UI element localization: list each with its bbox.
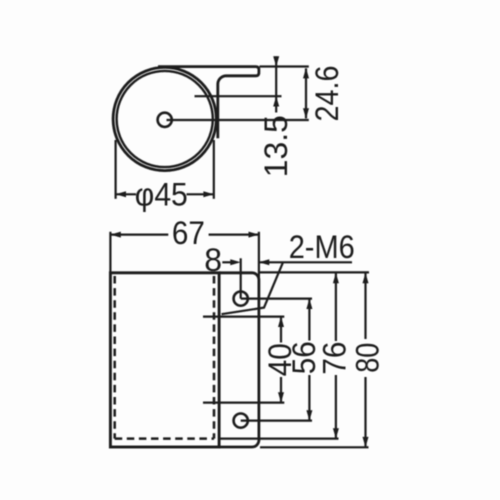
arrowhead 40 bottom (points down) (278, 392, 284, 402)
dimension line 13.5 (vertical) (275, 56, 277, 112)
arrowhead 24.6 bottom (points down) (303, 108, 309, 118)
arrowhead 67 right (points right) (249, 232, 259, 238)
hole M6 top (234, 292, 248, 306)
extension line from flange top to right (260, 65, 309, 67)
hidden line left (dashed) (113, 276, 116, 439)
hidden line right (dashed) (213, 276, 216, 439)
arrowhead 8 left (points right at hole center line) (230, 259, 240, 265)
extension line 76 bottom (continuation of hidden line) (219, 438, 338, 440)
arrowhead 76 top (points up) (333, 273, 339, 283)
arrowhead 13.5 top (points down) (273, 56, 279, 66)
hole center vertical line (8 dim reference) (240, 258, 242, 298)
arrowhead 56 bottom (points down) (306, 410, 312, 420)
top hole center line to right (56 upper reference) (241, 298, 312, 300)
dimension line 67 right segment (209, 234, 259, 236)
svg-text:8: 8 (204, 242, 222, 278)
svg-text:2-M6: 2-M6 (289, 229, 355, 265)
dimension line 80 lower segment (364, 377, 366, 447)
dimension line 76 upper segment (335, 273, 337, 341)
extension line 67 left (above body corner) (109, 232, 111, 273)
arrowhead 24.6 top (points up) (303, 68, 309, 78)
arrowhead 40 top (points up) (278, 317, 284, 327)
flange plate (bottom view, rounded right corners) (219, 273, 259, 447)
hidden line bottom (dashed) (115, 437, 214, 440)
arrowhead 67 left (points left) (110, 232, 120, 238)
arrowhead 80 top (points up) (363, 273, 369, 283)
svg-text:24.6: 24.6 (309, 66, 345, 122)
svg-text:67: 67 (172, 215, 205, 251)
outer circle (pipe socket ring, top view) (113, 67, 216, 170)
dimension line 40 upper segment (280, 317, 282, 343)
reference line at plate underside level (13.5 lower reference) (195, 95, 282, 97)
extension line phi45 left (114, 140, 116, 199)
body rectangle (bottom view) (110, 273, 219, 447)
dimension line 56 upper segment (308, 299, 310, 341)
arrowhead phi45 left (points left) (116, 191, 126, 197)
leader line 2-M6 (steep + shallow segments) (222, 262, 284, 314)
extension line 80 bottom (body bottom extended right) (260, 446, 369, 448)
svg-text:13.5: 13.5 (258, 115, 294, 177)
dimension line 24.6 (vertical) (305, 68, 307, 118)
dimension line 76 lower segment (335, 375, 337, 439)
dimension line phi45 right segment (187, 193, 214, 195)
flange tab outline (top view) (158, 67, 259, 139)
dimension line 80 upper segment (364, 273, 366, 339)
dimension line 40 lower segment (280, 377, 282, 403)
svg-text:80: 80 (350, 343, 386, 373)
svg-text:76: 76 (317, 342, 353, 375)
dimension line 67 left segment (110, 234, 168, 236)
extension line 67/8 right (flange right edge extended) (258, 232, 260, 280)
dimension line phi45 left segment (116, 193, 136, 195)
hole M6 bottom (234, 414, 248, 428)
extension line 40 upper (203, 316, 284, 318)
arrowhead 56 top (points up) (306, 299, 312, 309)
inner circle (pipe bore φ45, top view) (117, 71, 213, 167)
arrowhead 13.5 bottom (points up) (273, 96, 279, 106)
arrowhead 76 bottom (points down) (333, 428, 339, 438)
extension line phi45 right (213, 140, 215, 199)
center line from hole to right (24.6 lower reference) (167, 119, 309, 121)
extension line 40 lower (203, 402, 284, 404)
svg-text:φ45: φ45 (135, 176, 188, 212)
arrowhead 80 bottom (points down) (363, 437, 369, 447)
bottom hole center line to right (56 lower reference) (241, 420, 312, 422)
dimension line 8 right tail / 2-M6 underline (259, 261, 352, 263)
extension line 76/80 top (flange top extended right) (259, 271, 369, 273)
center hole (top view) (158, 113, 172, 127)
arrowhead phi45 right (points right) (203, 191, 213, 197)
arrowhead 8 right (points left at flange edge) (259, 259, 269, 265)
dimension line 56 lower segment (308, 375, 310, 421)
dimension line 8 left tail (222, 261, 232, 263)
